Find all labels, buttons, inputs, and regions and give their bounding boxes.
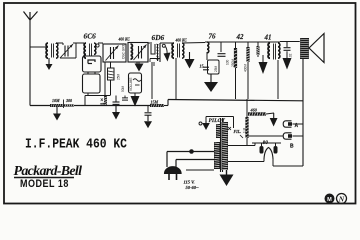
svg-text:MODEL 18: MODEL 18 bbox=[20, 178, 69, 190]
svg-text:300: 300 bbox=[65, 98, 72, 103]
svg-text:400M: 400M bbox=[244, 64, 248, 72]
svg-text:460: 460 bbox=[250, 108, 258, 113]
svg-text:460 KC: 460 KC bbox=[175, 39, 188, 43]
svg-text:15M: 15M bbox=[151, 100, 159, 105]
svg-text:OSC GRID: OSC GRID bbox=[122, 43, 126, 59]
svg-text:FIL.: FIL. bbox=[234, 129, 242, 134]
svg-text:15: 15 bbox=[200, 64, 204, 69]
svg-text:42: 42 bbox=[236, 33, 245, 41]
svg-text:10M: 10M bbox=[52, 98, 60, 103]
svg-text:N: N bbox=[338, 195, 345, 204]
svg-text:.02: .02 bbox=[289, 53, 293, 58]
svg-text:B: B bbox=[290, 144, 294, 150]
svg-text:6C6: 6C6 bbox=[84, 32, 97, 41]
svg-text:100: 100 bbox=[226, 59, 230, 65]
svg-text:50-60~: 50-60~ bbox=[186, 185, 199, 190]
svg-text:115 V.: 115 V. bbox=[184, 180, 196, 185]
svg-text:41: 41 bbox=[264, 34, 272, 42]
svg-text:1 M: 1 M bbox=[243, 127, 247, 133]
svg-text:50M: 50M bbox=[121, 85, 125, 92]
svg-text:25M: 25M bbox=[214, 65, 218, 72]
svg-text:76: 76 bbox=[209, 33, 217, 41]
svg-text:M: M bbox=[327, 197, 332, 203]
svg-text:460 KC: 460 KC bbox=[118, 38, 131, 42]
svg-text:I.F.PEAK 460 KC: I.F.PEAK 460 KC bbox=[25, 137, 127, 152]
svg-text:25M: 25M bbox=[117, 73, 121, 80]
svg-text:6D6: 6D6 bbox=[152, 33, 165, 42]
svg-text:VOLUME: VOLUME bbox=[129, 78, 133, 91]
svg-text:250M: 250M bbox=[231, 59, 235, 67]
